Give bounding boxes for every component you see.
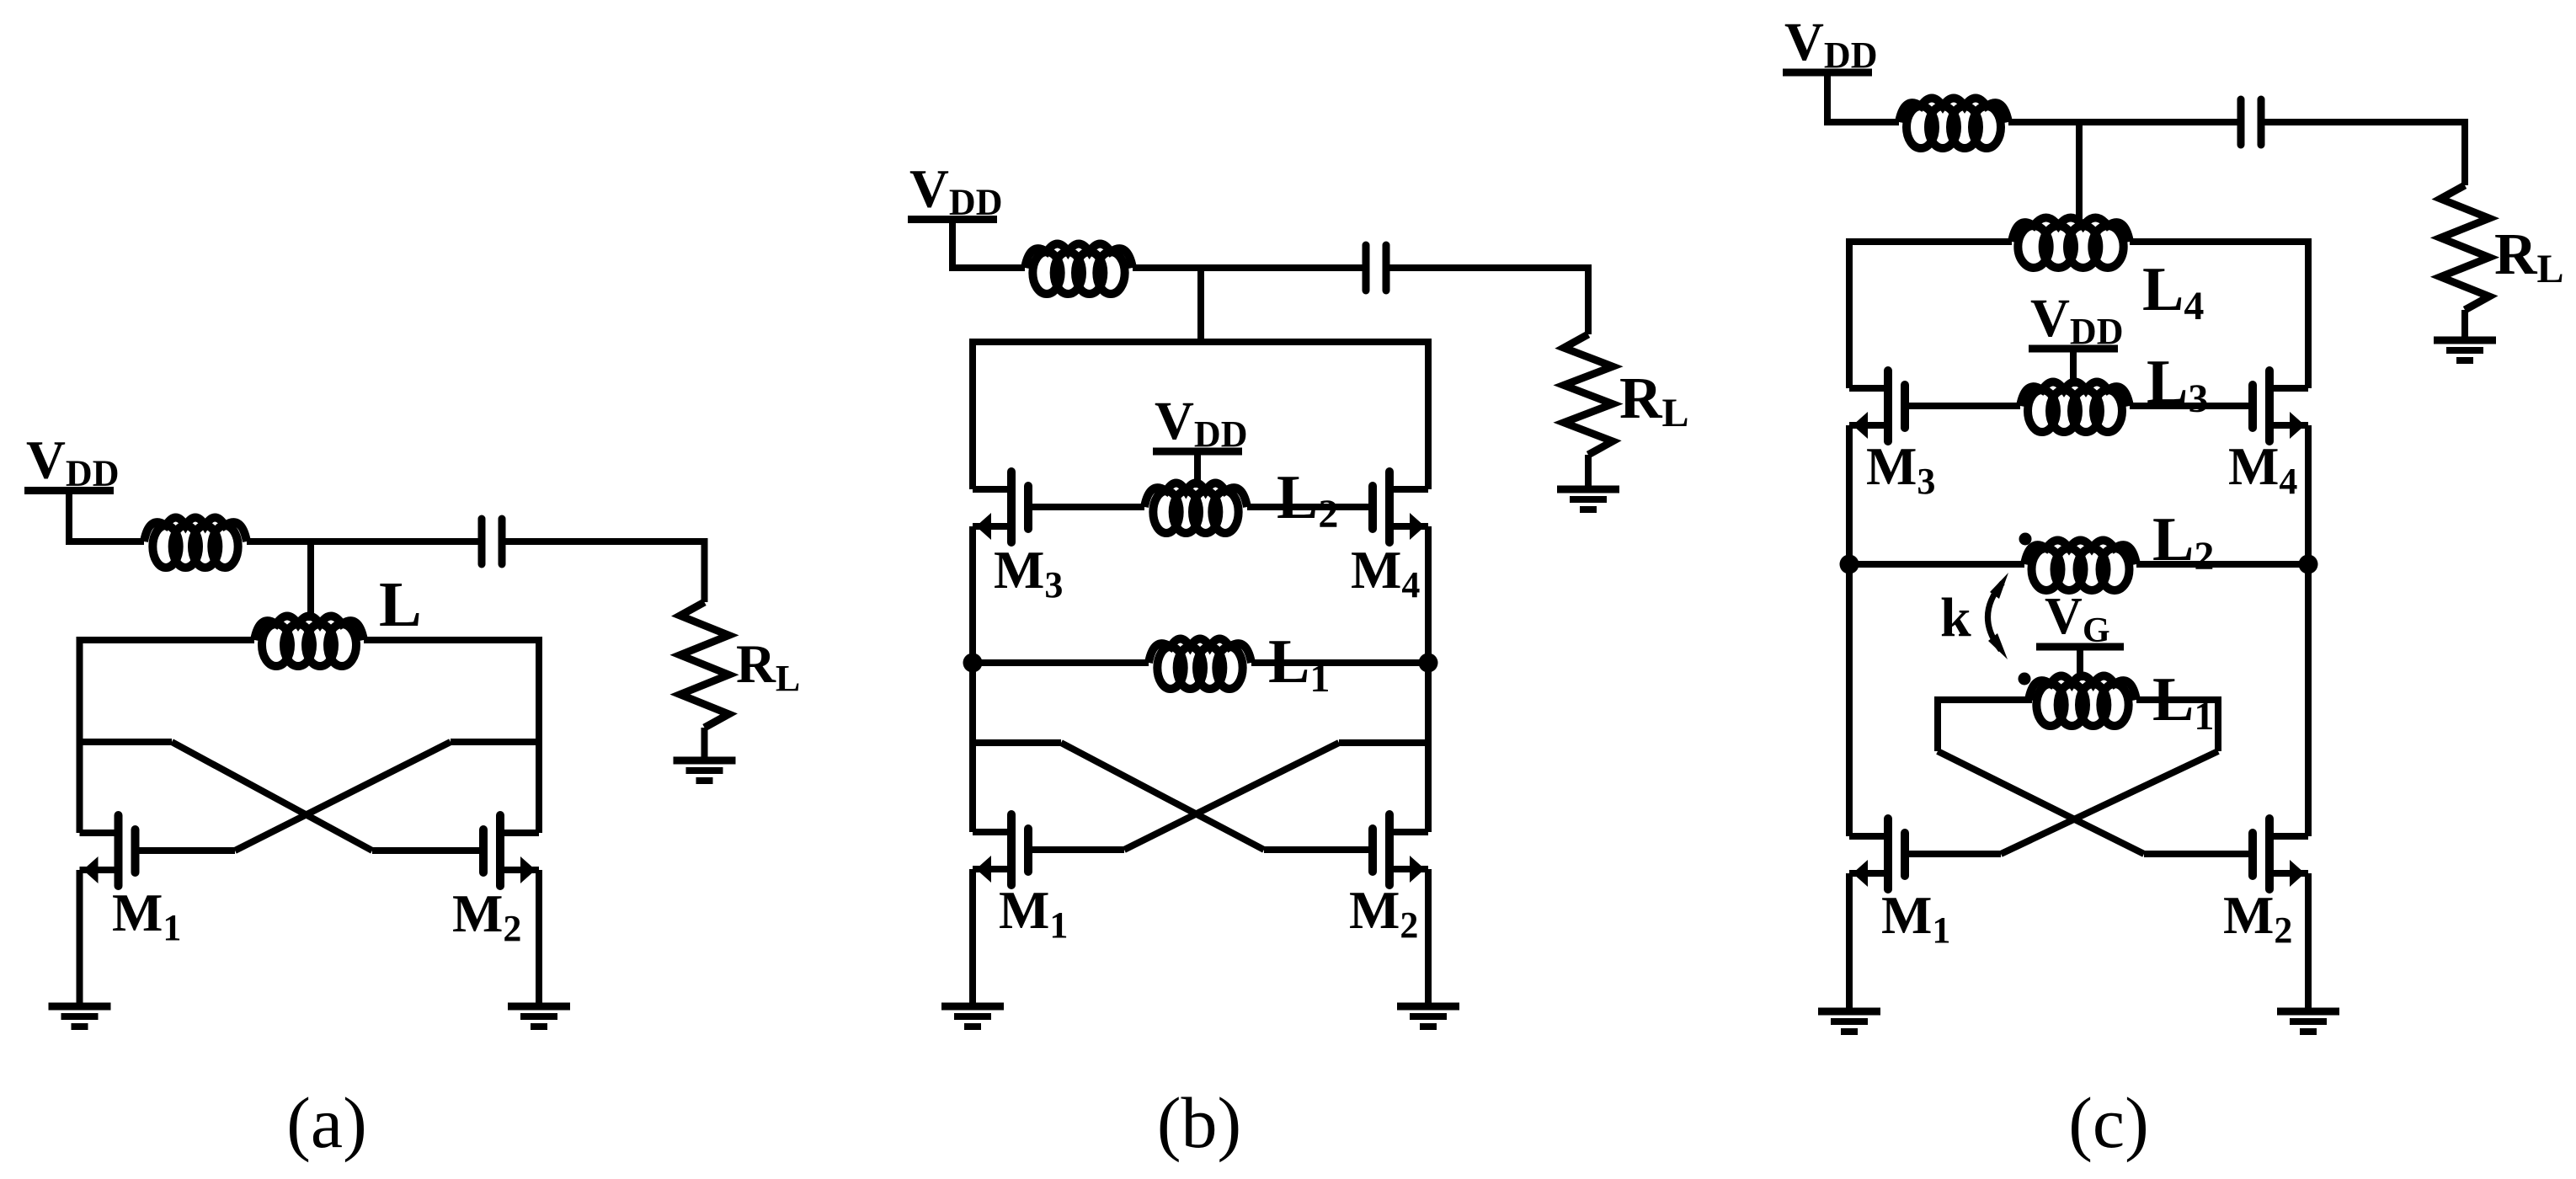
svg-text:2: 2: [2274, 910, 2292, 951]
svg-text:M: M: [112, 883, 163, 942]
svg-text:2: 2: [503, 908, 521, 949]
svg-text:DD: DD: [1824, 35, 1878, 76]
svg-text:4: 4: [2279, 461, 2297, 502]
svg-text:L: L: [2147, 348, 2188, 417]
svg-text:1: 1: [1932, 910, 1950, 951]
svg-text:DD: DD: [2070, 311, 2124, 352]
svg-text:M: M: [994, 540, 1044, 600]
svg-text:M: M: [1351, 540, 1401, 600]
svg-text:3: 3: [1044, 564, 1063, 606]
svg-text:M: M: [2228, 436, 2279, 496]
svg-text:1: 1: [163, 907, 181, 948]
svg-text:R: R: [2494, 222, 2538, 287]
svg-text:R: R: [736, 634, 776, 695]
svg-text:M: M: [452, 883, 503, 943]
svg-text:k: k: [1940, 587, 1971, 648]
svg-text:2: 2: [1400, 904, 1418, 946]
svg-text:4: 4: [1401, 564, 1420, 606]
svg-text:V: V: [909, 159, 949, 220]
svg-text:DD: DD: [1194, 413, 1248, 455]
svg-text:V: V: [2045, 588, 2083, 645]
svg-text:DD: DD: [66, 453, 120, 494]
svg-text:V: V: [2030, 288, 2070, 349]
svg-text:L: L: [2537, 247, 2564, 291]
svg-text:M: M: [1881, 885, 1932, 945]
svg-text:(c): (c): [2068, 1082, 2148, 1163]
svg-text:M: M: [999, 880, 1049, 940]
svg-text:M: M: [2223, 885, 2274, 945]
svg-text:L: L: [1277, 463, 1318, 532]
svg-text:M: M: [1349, 880, 1400, 940]
svg-text:L: L: [1662, 391, 1689, 435]
svg-text:L: L: [1268, 627, 1309, 696]
svg-text:2: 2: [2194, 534, 2214, 579]
svg-text:3: 3: [1917, 461, 1935, 502]
svg-text:L: L: [776, 658, 800, 699]
svg-text:3: 3: [2188, 376, 2208, 421]
svg-text:L: L: [379, 569, 422, 640]
svg-text:L: L: [2142, 255, 2184, 324]
svg-text:V: V: [26, 430, 66, 491]
svg-text:R: R: [1619, 366, 1663, 431]
svg-text:V: V: [1784, 12, 1824, 72]
svg-text:DD: DD: [949, 182, 1003, 223]
svg-text:(b): (b): [1157, 1082, 1241, 1163]
svg-text:1: 1: [1309, 656, 1330, 701]
svg-text:2: 2: [1318, 492, 1338, 536]
svg-text:1: 1: [1049, 904, 1068, 946]
svg-text:4: 4: [2184, 284, 2204, 328]
svg-text:M: M: [1866, 436, 1917, 496]
svg-text:(a): (a): [286, 1082, 366, 1163]
svg-text:V: V: [1155, 391, 1194, 451]
svg-text:L: L: [2152, 505, 2194, 574]
